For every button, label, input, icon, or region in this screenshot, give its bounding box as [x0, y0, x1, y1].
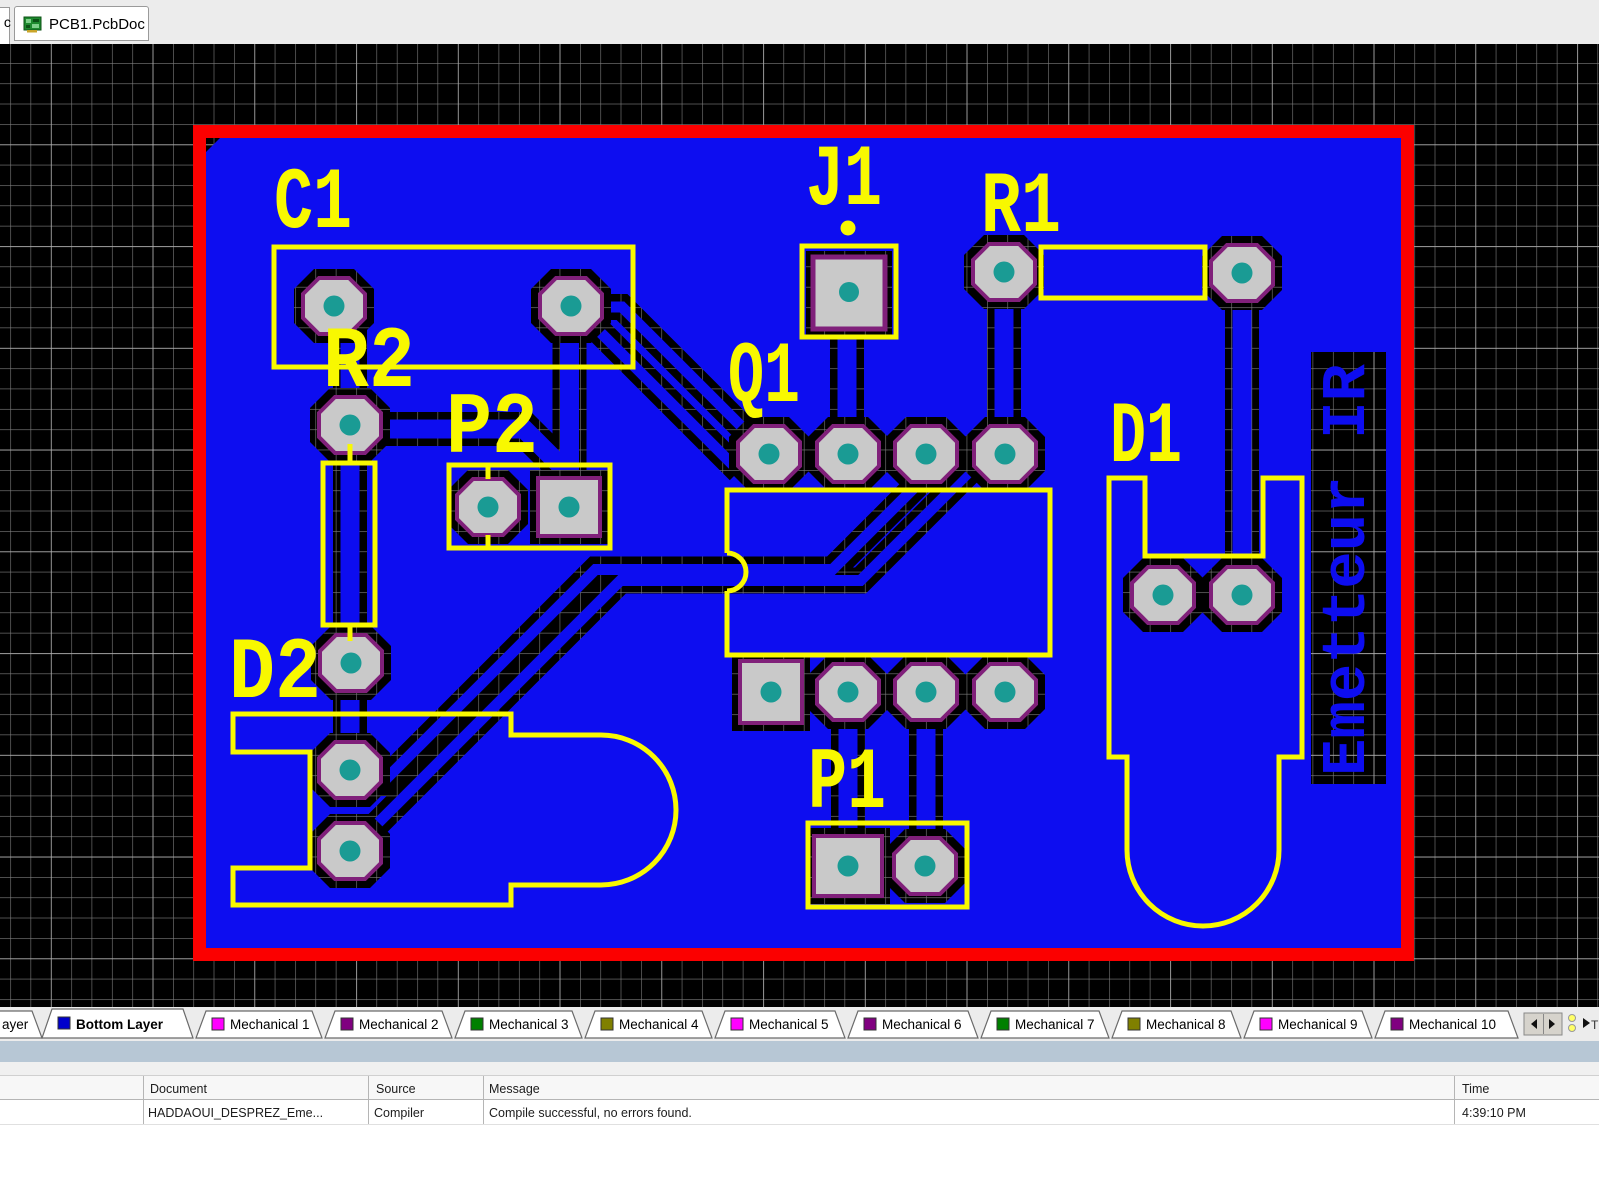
svg-text:Mechanical 6: Mechanical 6: [882, 1017, 962, 1032]
svg-text:Mechanical 2: Mechanical 2: [359, 1017, 439, 1032]
svg-text:Emetteur IR: Emetteur IR: [1312, 363, 1383, 776]
svg-text:Mechanical 3: Mechanical 3: [489, 1017, 569, 1032]
svg-text:Compile successful, no errors: Compile successful, no errors found.: [489, 1106, 692, 1120]
svg-text:Source: Source: [376, 1082, 416, 1096]
svg-text:Compiler: Compiler: [374, 1106, 424, 1120]
svg-text:Message: Message: [489, 1082, 540, 1096]
svg-text:Q1: Q1: [728, 330, 800, 428]
svg-text:HADDAOUI_DESPREZ_Eme...: HADDAOUI_DESPREZ_Eme...: [148, 1106, 323, 1120]
svg-text:Time: Time: [1462, 1082, 1489, 1096]
svg-text:Mechanical 5: Mechanical 5: [749, 1017, 829, 1032]
svg-text:J1: J1: [806, 133, 882, 231]
svg-text:C1: C1: [274, 156, 352, 254]
svg-text:R2: R2: [323, 315, 415, 413]
svg-text:4:39:10 PM: 4:39:10 PM: [1462, 1106, 1526, 1120]
svg-text:R1: R1: [981, 160, 1061, 258]
svg-text:D1: D1: [1110, 390, 1182, 488]
svg-text:Bottom Layer: Bottom Layer: [76, 1017, 164, 1032]
svg-text:ayer: ayer: [2, 1017, 29, 1032]
svg-text:Mechanical 7: Mechanical 7: [1015, 1017, 1095, 1032]
svg-text:P2: P2: [446, 381, 538, 479]
svg-text:D2: D2: [229, 626, 321, 724]
svg-text:Mechanical 9: Mechanical 9: [1278, 1017, 1358, 1032]
svg-text:Mechanical 8: Mechanical 8: [1146, 1017, 1226, 1032]
svg-text:Document: Document: [150, 1082, 207, 1096]
svg-text:Mechanical 1: Mechanical 1: [230, 1017, 310, 1032]
svg-text:P1: P1: [808, 736, 886, 834]
svg-text:Mechanical 10: Mechanical 10: [1409, 1017, 1496, 1032]
svg-text:T: T: [1591, 1018, 1599, 1032]
svg-text:Mechanical 4: Mechanical 4: [619, 1017, 699, 1032]
